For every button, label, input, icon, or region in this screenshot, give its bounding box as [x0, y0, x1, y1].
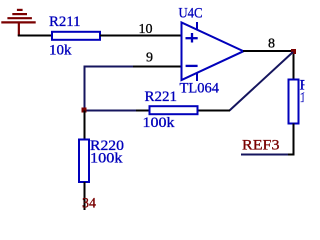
svg-text:8: 8 — [268, 37, 275, 52]
wire below right resistor — [286, 124, 294, 155]
op-amp U4C — [182, 23, 244, 81]
wire node to R220 — [84, 111, 86, 141]
svg-text:U4C: U4C — [179, 6, 203, 22]
op-amp top power pin stub — [196, 22, 198, 30]
resistor R (right, clipped) — [289, 80, 299, 124]
wire op-amp output — [243, 50, 294, 52]
op-amp plus sign — [186, 33, 198, 43]
wire ground to R211 — [18, 35, 52, 37]
wire net9 vertical — [84, 66, 86, 111]
ground — [1, 10, 35, 36]
wire R211 to op-amp + input — [100, 35, 181, 37]
op-amp bottom power pin stub — [196, 73, 198, 81]
svg-text:10: 10 — [139, 22, 153, 37]
wire net9 navy segment — [85, 66, 134, 68]
wire output vertical — [293, 52, 295, 81]
svg-text:100k: 100k — [143, 115, 176, 131]
wire node to R221 navy — [84, 110, 136, 112]
svg-text:R211: R211 — [49, 14, 81, 30]
resistor R221 — [150, 106, 198, 114]
wire diagonal feedback — [230, 52, 294, 111]
svg-text:10k: 10k — [49, 43, 72, 59]
wire net9 black segment — [133, 66, 181, 68]
junction dot at output node — [291, 49, 296, 54]
op-amp minus sign — [186, 65, 198, 67]
svg-text:TL064: TL064 — [180, 81, 220, 97]
svg-text:REF3: REF3 — [242, 138, 280, 154]
wire below R220 to pin 34 — [84, 182, 86, 210]
wire R221 right — [197, 110, 230, 112]
resistor R211 — [52, 32, 100, 40]
wire REF3 net — [241, 154, 288, 156]
svg-text:9: 9 — [146, 51, 153, 66]
svg-text:R221: R221 — [145, 89, 178, 105]
resistor R220 — [79, 140, 89, 183]
wire to R221 black — [136, 110, 150, 112]
svg-text:34: 34 — [82, 196, 97, 212]
junction dot at inverting node — [82, 108, 87, 113]
svg-text:100k: 100k — [90, 151, 123, 167]
